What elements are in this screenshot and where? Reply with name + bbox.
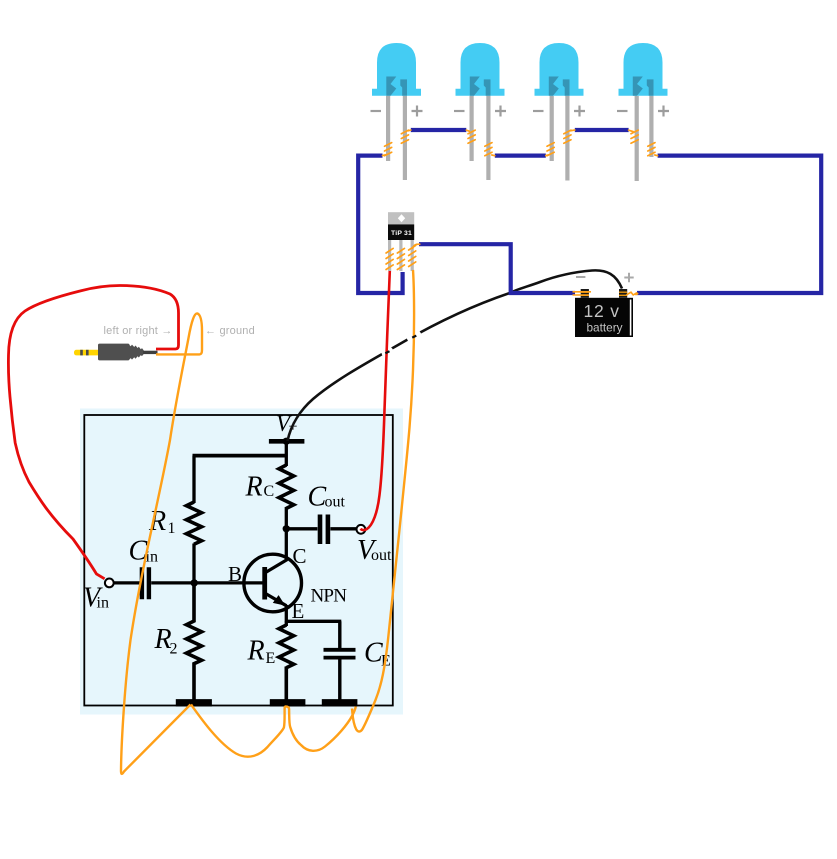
svg-text:E: E [292, 599, 305, 623]
transistor Q1 collector stroke [266, 560, 288, 573]
wire blue LED4 anode to battery plus [637, 156, 821, 293]
wire emitter node to CE [285, 620, 341, 623]
coil LED1 cathode leg [383, 143, 392, 156]
TIP31 leg base [388, 240, 391, 271]
wire orange TIP31 emitter to blue [413, 244, 420, 248]
halo where orange crosses black [407, 329, 422, 344]
svg-text:left or right →: left or right → [104, 325, 173, 337]
wire black crossing nub on orange [412, 336, 416, 338]
svg-text:out: out [371, 547, 392, 564]
coil LED3 anode leg [564, 130, 575, 143]
TIP31 hole [398, 214, 405, 222]
wire CE top [338, 621, 341, 648]
svg-text:in: in [97, 594, 109, 611]
wire blue LED1 anode to LED2 cathode [411, 128, 467, 132]
wire blue LED3 anode to LED4 cathode [575, 128, 629, 132]
wire red jack to Vin [8, 286, 178, 579]
wire top rail to R1 [193, 454, 287, 458]
label battery plus [624, 273, 633, 282]
wire orange G1 to G2 jumper [191, 705, 356, 757]
resistor R1 [186, 502, 201, 544]
LED D4 [617, 43, 669, 181]
jack body [98, 344, 130, 361]
jack tip [74, 350, 100, 356]
node collector junction dot [283, 525, 290, 532]
TIP31 transistor [388, 212, 414, 271]
transistor Q1 emitter stroke [266, 594, 287, 606]
wire red TIP31 base to Vout [361, 271, 390, 530]
jack collar [129, 344, 144, 360]
ground G1 [176, 699, 212, 706]
capacitor Cin [142, 567, 149, 599]
wire blue LED1 cathode to TIP31 collector [358, 156, 402, 293]
wire Vin to Cin [114, 581, 140, 584]
label battery minus [576, 276, 585, 278]
TIP31 leg emitter [411, 240, 414, 271]
wire RC bottom to collector node [285, 507, 288, 560]
svg-text:R: R [245, 471, 263, 502]
wire Cin to base bar with node [151, 581, 262, 584]
coil LED1 anode leg [401, 130, 411, 143]
svg-text:1: 1 [168, 520, 176, 537]
wire collector node to Cout [286, 527, 317, 530]
resistor RC [279, 465, 294, 508]
wire Cout to Vout [330, 527, 356, 530]
coil LED3 cathode leg [546, 143, 554, 156]
transistor Q1 emitter arrow [273, 595, 285, 606]
schematic border frame [84, 415, 393, 706]
wire RE bottom to ground [284, 667, 288, 701]
svg-text:← ground: ← ground [205, 325, 255, 337]
battery jumper orange left [573, 292, 592, 295]
wire blue LED2 anode to LED3 cathode [495, 154, 546, 158]
TIP31 body [388, 224, 414, 240]
capacitor Cout [320, 515, 328, 545]
wire orange TIP31 emitter to G3 [352, 270, 414, 732]
wire R1 bottom to base node [192, 544, 195, 584]
LEDs [371, 43, 670, 181]
coil LED4 anode leg [648, 143, 658, 156]
node V+ power bar [269, 439, 305, 444]
svg-text:TiP 31: TiP 31 [391, 230, 412, 237]
TIP31 tab [388, 212, 414, 224]
svg-text:2: 2 [170, 641, 178, 658]
jack cable [143, 351, 158, 354]
battery jumper orange right [627, 292, 639, 295]
ground G2 [270, 699, 306, 706]
transistor Q1 circle [244, 554, 302, 612]
battery minus post [581, 289, 589, 298]
svg-text:C: C [264, 483, 275, 500]
node V+ junction dot [283, 438, 290, 445]
wire black battery plus to V+ [288, 270, 623, 441]
battery plus post [619, 289, 627, 298]
wire RE top [285, 621, 288, 626]
resistor R2 [186, 583, 201, 700]
capacitor CE plates [324, 650, 356, 658]
TIP31 leg collector [399, 240, 402, 271]
battery B1 body [573, 273, 639, 337]
LED D2 [454, 43, 506, 180]
wire R1 vertical top [192, 456, 195, 503]
schematic figure background [80, 409, 403, 715]
wire black crossing nub on red [385, 351, 389, 353]
coil TIP31 base leg [386, 248, 393, 269]
coil LED2 cathode leg [466, 130, 475, 143]
audio jack J1 [74, 325, 255, 361]
node Vout terminal circle [357, 525, 366, 534]
node base junction dot [191, 579, 198, 586]
svg-text:B: B [228, 562, 242, 586]
wire blue TIP31 emitter to battery minus [419, 244, 575, 293]
svg-text:out: out [325, 494, 346, 511]
transistor Q1 base bar [262, 567, 267, 600]
node Vin terminal circle [105, 579, 114, 588]
ground G3 [322, 699, 358, 706]
wire orange jack ground to G1 [121, 313, 202, 773]
wire emitter down [285, 605, 288, 623]
coil TIP31 emitter leg [409, 245, 416, 266]
svg-text:battery: battery [587, 321, 623, 335]
svg-text:E: E [266, 650, 276, 667]
wire CE bottom to ground [338, 659, 341, 700]
resistor RE [279, 625, 294, 668]
wire V+ bar to RC top [285, 441, 288, 466]
halo where red crosses black [382, 346, 394, 358]
svg-text:R: R [247, 636, 265, 667]
coil LED2 anode leg [485, 143, 495, 156]
svg-text:12 v: 12 v [584, 301, 620, 321]
coil TIP31 collector leg [397, 248, 404, 269]
LED D3 [533, 43, 585, 181]
svg-text:C: C [293, 544, 307, 568]
LED D1 [371, 43, 423, 180]
coil LED4 cathode leg [629, 130, 639, 143]
svg-text:NPN: NPN [311, 585, 348, 606]
